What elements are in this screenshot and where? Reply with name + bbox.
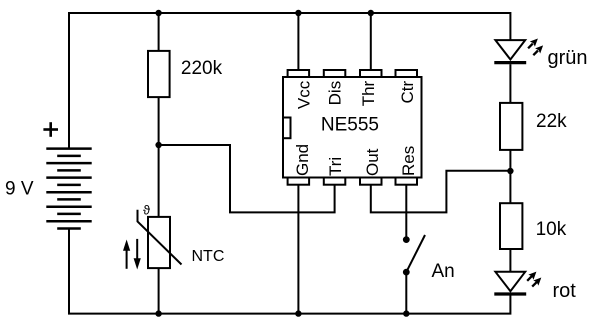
wire node A to NTC bbox=[158, 145, 160, 217]
node A dot bbox=[155, 142, 161, 148]
node dot bottom rail switch bbox=[403, 310, 409, 316]
node dot top rail Thr bbox=[368, 10, 374, 16]
NTC arrow up bbox=[123, 240, 130, 269]
svg-text:NE555: NE555 bbox=[321, 115, 379, 136]
svg-text:Dis: Dis bbox=[326, 81, 345, 106]
svg-text:Gnd: Gnd bbox=[293, 144, 312, 176]
battery B1 9V plates bbox=[46, 149, 91, 229]
LED D1 cathode bar bbox=[494, 61, 526, 64]
pin pad Thr top bbox=[360, 70, 382, 77]
wire 22k to node B bbox=[509, 150, 511, 203]
battery plus sign bbox=[43, 122, 58, 137]
switch S1 bottom contact dot bbox=[403, 269, 410, 276]
svg-text:grün: grün bbox=[548, 47, 588, 69]
switch S1 top contact dot bbox=[403, 236, 410, 243]
pin pad Tri bottom bbox=[324, 178, 346, 185]
LED D2 red triangle bbox=[495, 272, 525, 291]
wire Out to node B bbox=[371, 171, 511, 213]
svg-text:Thr: Thr bbox=[359, 80, 378, 106]
pin pad Gnd bottom bbox=[288, 178, 310, 185]
svg-text:Tri: Tri bbox=[326, 157, 345, 176]
wire node A to Tri pin bbox=[159, 145, 335, 212]
node dot bottom rail NTC bbox=[155, 310, 161, 316]
LED D1 arrows bbox=[528, 39, 543, 56]
resistor R3 10k bbox=[500, 203, 522, 249]
wire NTC to bottom rail bbox=[158, 268, 160, 314]
NTC arrow down bbox=[134, 239, 141, 270]
wire Res to switch bbox=[405, 185, 407, 240]
wire Vcc to top rail bbox=[297, 13, 299, 70]
wire Thr to top rail bbox=[370, 13, 372, 70]
svg-text:22k: 22k bbox=[536, 111, 567, 132]
wire green LED to 22k bbox=[509, 64, 511, 103]
wire bottom rail from battery to red LED bbox=[69, 229, 510, 314]
resistor R2 22k bbox=[500, 103, 522, 150]
wire 10k to red LED bbox=[509, 249, 511, 272]
wire Gnd to bottom rail bbox=[297, 185, 299, 314]
svg-text:9 V: 9 V bbox=[5, 179, 34, 200]
svg-text:NTC: NTC bbox=[192, 248, 225, 265]
switch S1 lever bbox=[406, 235, 425, 272]
wire switch to bottom rail bbox=[405, 272, 407, 314]
svg-text:ϑ: ϑ bbox=[143, 202, 151, 217]
wire top rail with left and right rail drops bbox=[69, 13, 510, 149]
IC U1 NE555 timer body bbox=[283, 77, 422, 178]
svg-text:An: An bbox=[432, 261, 455, 282]
wire 220k to node A bbox=[158, 97, 160, 145]
thermistor NTC body bbox=[148, 217, 170, 268]
LED D1 green triangle bbox=[495, 40, 525, 59]
resistor R1 220k bbox=[148, 51, 170, 97]
node dot top rail Vcc bbox=[295, 10, 301, 16]
svg-text:220k: 220k bbox=[181, 58, 223, 79]
wire 220k branch from top rail bbox=[158, 13, 160, 51]
svg-text:10k: 10k bbox=[536, 219, 567, 240]
svg-text:Out: Out bbox=[363, 148, 382, 176]
pin pad Dis top bbox=[324, 70, 346, 77]
pin pad Out bottom bbox=[360, 178, 382, 185]
NE555 notch marker bbox=[283, 118, 291, 139]
LED D2 arrows bbox=[527, 272, 541, 287]
pin pad Res bottom bbox=[396, 178, 418, 185]
node dot bottom rail Gnd bbox=[295, 310, 301, 316]
node dot top rail 220k bbox=[155, 10, 161, 16]
svg-text:Res: Res bbox=[399, 146, 418, 176]
pin pad Vcc top bbox=[288, 70, 310, 77]
LED D2 cathode bar bbox=[494, 292, 526, 295]
svg-text:rot: rot bbox=[553, 280, 577, 302]
thermistor NTC diagonal with hook bbox=[138, 210, 182, 265]
node B dot bbox=[507, 168, 513, 174]
svg-text:Ctr: Ctr bbox=[398, 80, 417, 103]
pin pad Ctr top bbox=[396, 70, 418, 77]
svg-text:Vcc: Vcc bbox=[294, 80, 313, 109]
